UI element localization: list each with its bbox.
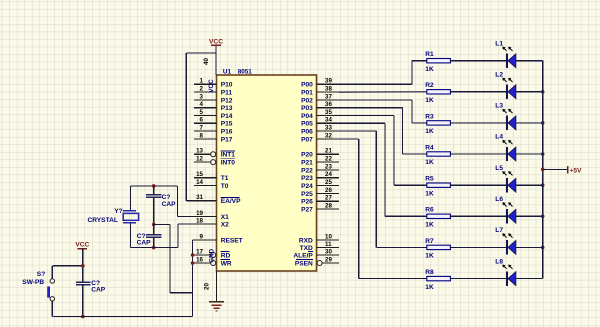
wire gnd vertical x170 bbox=[169, 224, 171, 292]
wire mid junction to cap2 bbox=[153, 224, 155, 234]
wire +5V bus vertical bbox=[542, 61, 544, 279]
svg-text:P25: P25 bbox=[301, 191, 313, 198]
svg-text:RESET: RESET bbox=[221, 237, 243, 244]
pin 39 P00 bbox=[317, 83, 340, 85]
svg-text:P23: P23 bbox=[301, 175, 313, 182]
svg-text:VCC: VCC bbox=[209, 38, 223, 45]
svg-text:P01: P01 bbox=[301, 90, 313, 97]
svg-text:WR: WR bbox=[221, 260, 232, 267]
node junction top rail bbox=[152, 184, 156, 188]
svg-text:37: 37 bbox=[325, 93, 332, 100]
svg-text:U1: U1 bbox=[223, 69, 232, 76]
wire LED L7 to +5V bus bbox=[516, 246, 543, 248]
wire crystal bottom drop bbox=[130, 223, 132, 248]
wire bottom rail B bbox=[52, 316, 192, 318]
wire switch branch bbox=[52, 265, 83, 267]
svg-text:ALE/P: ALE/P bbox=[293, 252, 313, 259]
pin 12 INT0 bbox=[194, 161, 211, 163]
wire EA rail vertical bbox=[185, 53, 187, 201]
svg-text:L3: L3 bbox=[495, 103, 503, 110]
resistor R3 1K bbox=[427, 121, 451, 125]
svg-text:R4: R4 bbox=[425, 144, 434, 151]
svg-text:T1: T1 bbox=[221, 175, 229, 182]
svg-text:R7: R7 bbox=[425, 238, 434, 245]
wire cap2 bottom lead bbox=[153, 237, 155, 248]
node cap2 bottom junction bbox=[152, 246, 156, 250]
svg-text:5: 5 bbox=[200, 109, 204, 116]
svg-text:22: 22 bbox=[325, 156, 332, 163]
svg-text:CAP: CAP bbox=[137, 240, 152, 247]
svg-text:P21: P21 bbox=[301, 160, 313, 167]
pin 6 P15 bbox=[194, 122, 217, 124]
wire RD to reset line bbox=[193, 254, 194, 256]
capacitor C? (top, X1 side) bbox=[146, 194, 161, 196]
LED L6 bbox=[506, 209, 508, 223]
node bus junction bbox=[541, 90, 545, 94]
svg-text:1K: 1K bbox=[425, 222, 434, 229]
wire crystal top drop bbox=[130, 186, 132, 211]
LED L2 bbox=[506, 85, 508, 99]
wire reset vertical bbox=[192, 240, 194, 317]
svg-text:P02: P02 bbox=[301, 97, 313, 104]
wire pin 20 to ground bbox=[215, 271, 217, 302]
svg-text:R6: R6 bbox=[425, 207, 434, 214]
svg-text:RD: RD bbox=[221, 252, 231, 259]
svg-text:24: 24 bbox=[325, 171, 332, 178]
svg-text:INT0: INT0 bbox=[221, 160, 236, 167]
capacitor C? reset bbox=[76, 281, 91, 283]
wire LED L4 to +5V bus bbox=[516, 153, 543, 155]
svg-text:L8: L8 bbox=[495, 258, 503, 265]
node mid junction bbox=[152, 223, 156, 227]
pin 24 P23 bbox=[317, 177, 340, 179]
pin 10 RXD bbox=[317, 239, 340, 241]
svg-text:Y?: Y? bbox=[114, 208, 122, 215]
wire X1 net: pin to corner bbox=[178, 216, 195, 218]
svg-text:L6: L6 bbox=[495, 196, 503, 203]
svg-text:P00: P00 bbox=[301, 82, 313, 89]
wire P04 to R5 bbox=[339, 115, 394, 117]
wire P07 to R8 bbox=[339, 138, 359, 140]
pin 36 P03 bbox=[317, 107, 340, 109]
power +5V symbol bbox=[567, 166, 569, 173]
node bus junction bbox=[541, 246, 545, 250]
svg-text:17: 17 bbox=[196, 248, 203, 255]
resistor R4 1K bbox=[427, 152, 451, 156]
pin 31 EA/VP bbox=[194, 200, 217, 202]
node RD junction bbox=[191, 253, 195, 257]
pin 13 INT1 bbox=[194, 153, 211, 155]
svg-text:VCC: VCC bbox=[75, 242, 89, 249]
svg-text:1K: 1K bbox=[425, 284, 434, 291]
pin 23 P22 bbox=[317, 169, 340, 171]
svg-text:R5: R5 bbox=[425, 176, 434, 183]
svg-text:19: 19 bbox=[196, 210, 203, 217]
wire VCC to pin 40 bbox=[215, 45, 217, 75]
pin 22 P21 bbox=[317, 161, 340, 163]
svg-text:X1: X1 bbox=[221, 214, 229, 221]
pin 3 P12 bbox=[194, 99, 217, 101]
pin 14 T0 bbox=[194, 185, 217, 187]
svg-text:P07: P07 bbox=[301, 136, 313, 143]
pin 37 P02 bbox=[317, 99, 340, 101]
svg-text:CAP: CAP bbox=[162, 201, 177, 208]
svg-text:6: 6 bbox=[200, 117, 204, 124]
pin 16 WR bbox=[194, 262, 211, 264]
svg-text:P16: P16 bbox=[221, 129, 233, 136]
svg-text:S?: S? bbox=[37, 271, 45, 278]
wire R1 to LED L1 bbox=[450, 60, 507, 62]
wire P02 to R3 bbox=[339, 99, 412, 101]
svg-text:P26: P26 bbox=[301, 199, 313, 206]
svg-text:18: 18 bbox=[196, 217, 203, 224]
svg-text:C?: C? bbox=[162, 194, 171, 201]
svg-text:21: 21 bbox=[325, 148, 332, 155]
resistor R6 1K bbox=[427, 214, 451, 218]
svg-text:20: 20 bbox=[204, 283, 211, 290]
svg-text:P15: P15 bbox=[221, 121, 233, 128]
svg-text:PSEN: PSEN bbox=[295, 260, 313, 267]
node VCC branch junction bbox=[81, 264, 85, 268]
wire switch bottom lead bbox=[51, 301, 53, 317]
wire LED L3 to +5V bus bbox=[516, 122, 543, 124]
svg-text:GND: GND bbox=[208, 248, 215, 262]
svg-text:23: 23 bbox=[325, 163, 332, 170]
svg-text:1K: 1K bbox=[425, 66, 434, 73]
resistor R8 1K bbox=[427, 276, 451, 280]
pin 11 TXD bbox=[317, 247, 340, 249]
pin 8 P17 bbox=[194, 138, 217, 140]
pin 4 P13 bbox=[194, 107, 217, 109]
capacitor C? (mid, X2 side) bbox=[146, 234, 161, 236]
svg-text:X2: X2 bbox=[221, 221, 229, 228]
wire R5 to LED L5 bbox=[450, 184, 507, 186]
wire EA rail to pin 31 bbox=[186, 200, 194, 202]
wire X2 vertical bbox=[177, 224, 179, 248]
pin 25 P24 bbox=[317, 185, 340, 187]
pin 27 P26 bbox=[317, 200, 340, 202]
svg-text:14: 14 bbox=[196, 179, 203, 186]
wire X1 vertical bbox=[177, 186, 179, 217]
svg-text:P10: P10 bbox=[221, 82, 233, 89]
svg-text:3: 3 bbox=[200, 93, 204, 100]
svg-text:10: 10 bbox=[325, 233, 332, 240]
svg-text:28: 28 bbox=[325, 202, 332, 209]
wire cap1 top lead bbox=[153, 186, 155, 195]
node bus junction bbox=[541, 121, 545, 125]
pin 35 P04 bbox=[317, 115, 340, 117]
wire VCC down to cap3 bbox=[82, 249, 84, 283]
LED L3 bbox=[506, 116, 508, 130]
svg-text:INT1: INT1 bbox=[221, 152, 236, 159]
wire P03 to R4 bbox=[339, 107, 403, 109]
svg-text:P05: P05 bbox=[301, 121, 313, 128]
resistor R5 1K bbox=[427, 183, 451, 187]
LED L4 bbox=[506, 147, 508, 161]
svg-text:31: 31 bbox=[196, 194, 203, 201]
svg-text:34: 34 bbox=[325, 117, 332, 124]
svg-text:R2: R2 bbox=[425, 82, 434, 89]
wire +5V tap bbox=[543, 168, 568, 170]
pin 38 P01 bbox=[317, 91, 340, 93]
wire R7 to LED L7 bbox=[450, 246, 507, 248]
svg-text:P22: P22 bbox=[301, 167, 313, 174]
svg-text:R1: R1 bbox=[425, 51, 434, 58]
node cap3 rail junction bbox=[81, 315, 85, 319]
svg-text:1K: 1K bbox=[425, 97, 434, 104]
pin 1 P10 bbox=[194, 83, 217, 85]
pin 7 P16 bbox=[194, 130, 217, 132]
ground symbol bbox=[209, 301, 224, 303]
wire LED L5 to +5V bus bbox=[516, 184, 543, 186]
svg-text:32: 32 bbox=[325, 132, 332, 139]
wire LED L8 to +5V bus bbox=[516, 278, 543, 280]
op IC U1 8051 body bbox=[217, 75, 317, 271]
pin 33 P06 bbox=[317, 130, 340, 132]
svg-text:16: 16 bbox=[196, 256, 203, 263]
svg-text:L5: L5 bbox=[495, 165, 503, 172]
wire gnd jog from mid junction bbox=[154, 223, 170, 225]
svg-text:11: 11 bbox=[325, 241, 332, 248]
wire R6 to LED L6 bbox=[450, 215, 507, 217]
pin 26 P25 bbox=[317, 192, 340, 194]
node bus junction bbox=[541, 215, 545, 219]
wire reset net corner bbox=[193, 239, 194, 241]
pin 5 P14 bbox=[194, 115, 217, 117]
svg-text:27: 27 bbox=[325, 195, 332, 202]
svg-text:+5V: +5V bbox=[570, 168, 583, 175]
pin 28 P27 bbox=[317, 208, 340, 210]
node bus junction bbox=[541, 152, 545, 156]
wire R4 to LED L4 bbox=[450, 153, 507, 155]
wire X2 bottom rail to crystal bbox=[131, 247, 178, 249]
pin 32 P07 bbox=[317, 138, 340, 140]
pin 19 X1 bbox=[194, 216, 217, 218]
svg-text:VCC: VCC bbox=[208, 79, 215, 93]
pin 2 P11 bbox=[194, 91, 217, 93]
switch S? SW-PB bbox=[50, 279, 54, 283]
wire VCC branch to EA rail bbox=[186, 52, 216, 54]
svg-text:P04: P04 bbox=[301, 113, 313, 120]
svg-text:L2: L2 bbox=[495, 72, 503, 79]
svg-text:L4: L4 bbox=[495, 134, 503, 141]
wire R8 to LED L8 bbox=[450, 278, 507, 280]
wire LED L1 to +5V bus bbox=[516, 60, 543, 62]
svg-text:1: 1 bbox=[200, 78, 204, 85]
wire P05 to R6 bbox=[339, 122, 385, 124]
pin 15 T1 bbox=[194, 177, 217, 179]
resistor R7 1K bbox=[427, 245, 451, 249]
svg-text:1K: 1K bbox=[425, 253, 434, 260]
pin 17 RD bbox=[194, 254, 211, 256]
svg-text:P27: P27 bbox=[301, 206, 313, 213]
svg-text:15: 15 bbox=[196, 171, 203, 178]
svg-text:25: 25 bbox=[325, 179, 332, 186]
svg-text:P06: P06 bbox=[301, 129, 313, 136]
node +5V tap junction bbox=[541, 168, 545, 172]
svg-text:1K: 1K bbox=[425, 128, 434, 135]
svg-text:39: 39 bbox=[325, 78, 332, 85]
svg-text:P20: P20 bbox=[301, 152, 313, 159]
svg-text:8: 8 bbox=[200, 132, 204, 139]
svg-text:7: 7 bbox=[200, 125, 204, 132]
svg-text:CRYSTAL: CRYSTAL bbox=[88, 217, 118, 224]
svg-text:33: 33 bbox=[325, 125, 332, 132]
svg-text:1K: 1K bbox=[425, 190, 434, 197]
pin 29 PSEN bbox=[323, 262, 340, 264]
wire R2 to LED L2 bbox=[450, 91, 507, 93]
pin 21 P20 bbox=[317, 153, 340, 155]
pin 9 RESET bbox=[194, 239, 217, 241]
wire cap1 to mid junction bbox=[153, 197, 155, 224]
svg-text:1K: 1K bbox=[425, 159, 434, 166]
svg-text:P03: P03 bbox=[301, 105, 313, 112]
wire LED L6 to +5V bus bbox=[516, 215, 543, 217]
svg-text:L1: L1 bbox=[495, 40, 503, 47]
svg-text:R8: R8 bbox=[425, 269, 434, 276]
svg-text:P12: P12 bbox=[221, 97, 233, 104]
svg-text:29: 29 bbox=[325, 256, 332, 263]
pin 34 P05 bbox=[317, 122, 340, 124]
LED L1 bbox=[506, 54, 508, 68]
node bus junction bbox=[541, 183, 545, 187]
svg-text:P24: P24 bbox=[301, 183, 313, 190]
svg-text:36: 36 bbox=[325, 101, 332, 108]
svg-text:CAP: CAP bbox=[91, 287, 106, 294]
wire X2 net: pin to corner bbox=[178, 223, 194, 225]
wire P01 to R2 bbox=[339, 91, 426, 93]
svg-text:40: 40 bbox=[203, 58, 210, 65]
resistor R1 1K bbox=[427, 59, 451, 63]
svg-text:T0: T0 bbox=[221, 183, 229, 190]
svg-text:SW-PB: SW-PB bbox=[22, 279, 44, 286]
svg-text:RXD: RXD bbox=[299, 237, 313, 244]
wire R3 to LED L3 bbox=[450, 122, 507, 124]
svg-text:P14: P14 bbox=[221, 113, 233, 120]
svg-text:8051: 8051 bbox=[238, 69, 253, 76]
wire P06 to R7 bbox=[339, 130, 376, 132]
svg-text:38: 38 bbox=[325, 86, 332, 93]
crystal Y? symbol bbox=[123, 210, 136, 212]
svg-text:12: 12 bbox=[196, 156, 203, 163]
wire P00 to R1 bbox=[339, 83, 412, 85]
wire cap3 bottom lead bbox=[82, 285, 84, 317]
svg-text:13: 13 bbox=[196, 148, 203, 155]
LED L7 bbox=[506, 240, 508, 254]
svg-text:26: 26 bbox=[325, 187, 332, 194]
svg-text:R3: R3 bbox=[425, 113, 434, 120]
wire gnd rail to reset line bbox=[170, 292, 193, 294]
pin 30 ALE/P bbox=[317, 254, 340, 256]
svg-text:P13: P13 bbox=[221, 105, 233, 112]
svg-text:L7: L7 bbox=[495, 227, 503, 234]
LED L5 bbox=[506, 178, 508, 192]
svg-text:EA/VP: EA/VP bbox=[221, 198, 241, 205]
svg-text:2: 2 bbox=[200, 86, 204, 93]
wire switch top lead bbox=[51, 266, 53, 279]
svg-text:4: 4 bbox=[200, 101, 204, 108]
svg-text:35: 35 bbox=[325, 109, 332, 116]
svg-text:TXD: TXD bbox=[300, 245, 313, 252]
resistor R2 1K bbox=[427, 90, 451, 94]
svg-text:9: 9 bbox=[200, 233, 204, 240]
LED L8 bbox=[506, 271, 508, 285]
svg-text:P11: P11 bbox=[221, 90, 233, 97]
wire LED L2 to +5V bus bbox=[516, 91, 543, 93]
svg-text:P17: P17 bbox=[221, 136, 233, 143]
node WR junction bbox=[191, 261, 195, 265]
pin 18 X2 bbox=[194, 223, 217, 225]
wire crystal top rail bbox=[131, 185, 178, 187]
svg-text:30: 30 bbox=[325, 248, 332, 255]
